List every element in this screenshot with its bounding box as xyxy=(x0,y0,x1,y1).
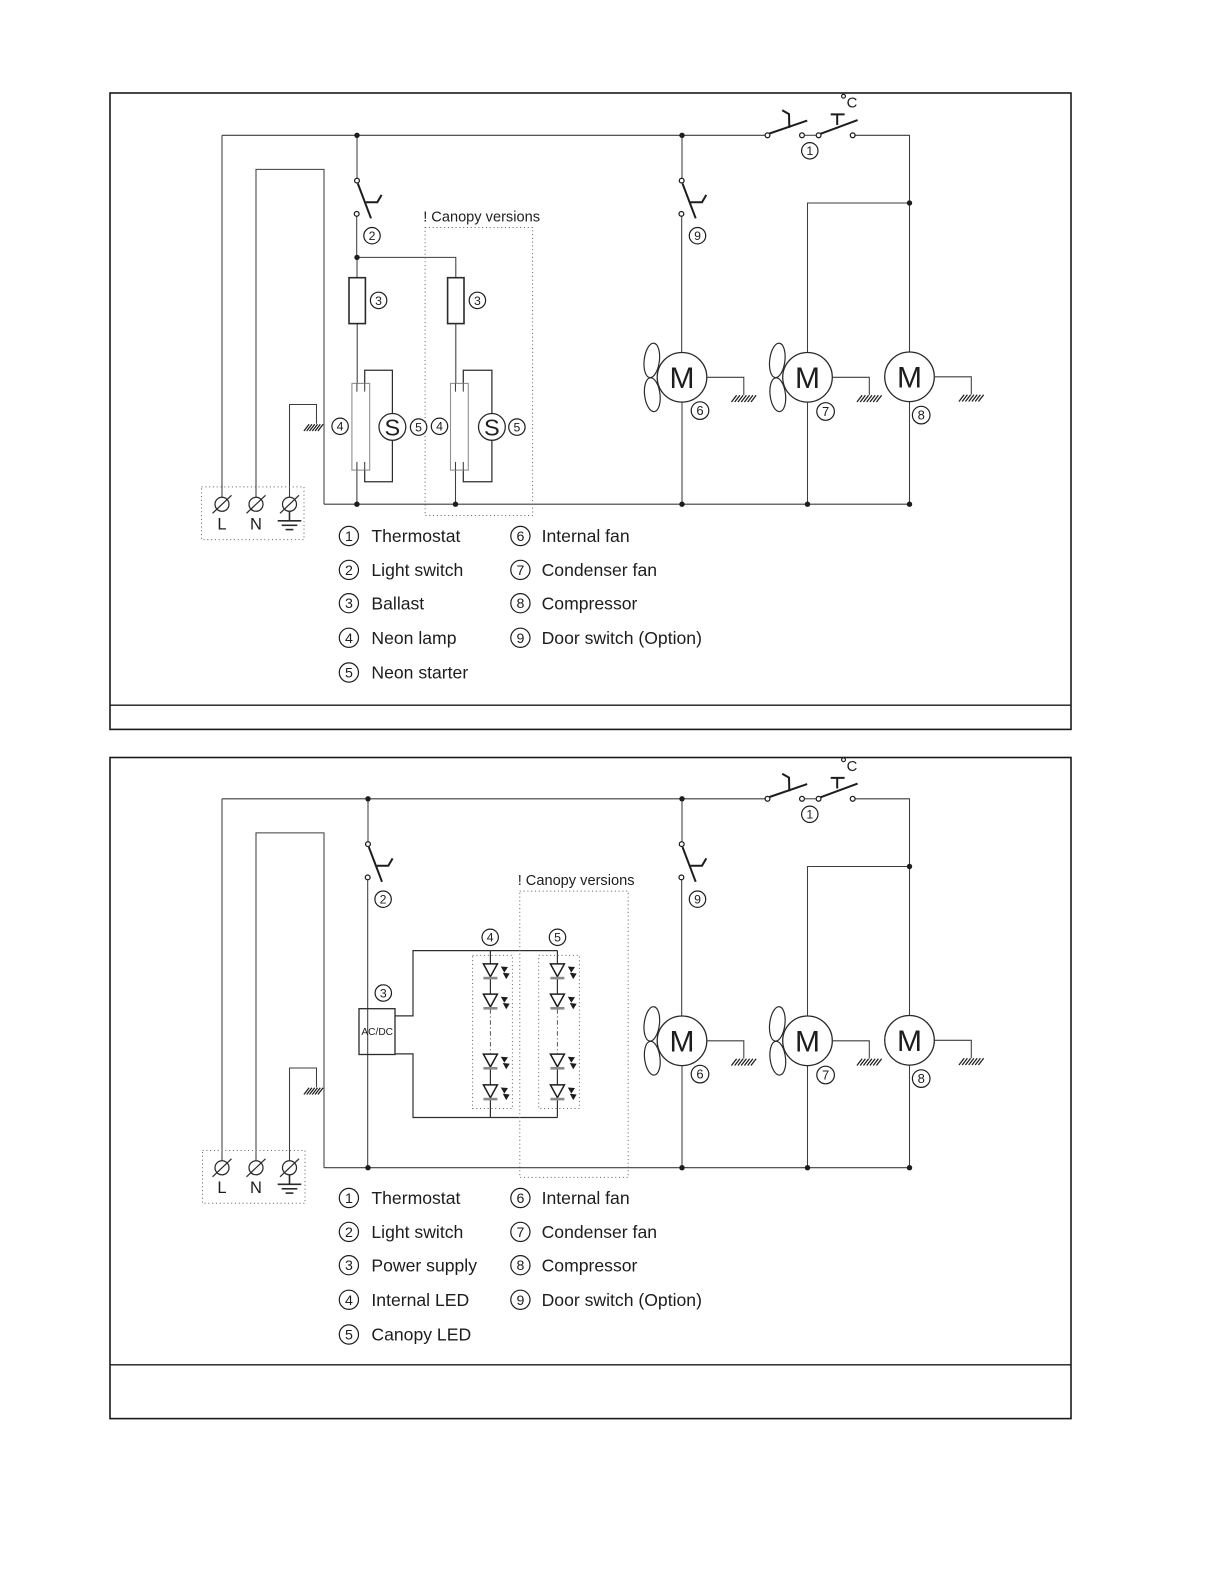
label 6 (internal fan) xyxy=(691,402,709,420)
thermostat 1 (panel 2) arm B xyxy=(821,784,858,798)
wire lamp 1 to neutral bus xyxy=(356,470,358,504)
label 8 (compressor, panel 2) xyxy=(912,1070,930,1088)
power supply AC/DC box xyxy=(359,1009,395,1055)
label 7 (condenser fan, panel 2) xyxy=(817,1066,835,1084)
terminal PE (panel 2) xyxy=(280,1157,299,1177)
wire LED string 5 return xyxy=(556,1100,558,1117)
label 5 (canopy LED) xyxy=(549,929,565,945)
legend item 2 number xyxy=(339,1222,358,1241)
label 6 (internal fan, panel 2) xyxy=(691,1065,709,1083)
wire top bus (right) to compressor drop xyxy=(855,135,909,203)
svg-text:3: 3 xyxy=(375,294,382,308)
ground M8 (panel 2) xyxy=(934,1040,971,1058)
PE earth symbol (panel 2) xyxy=(278,1175,302,1193)
panel 2 frame xyxy=(110,758,1071,1419)
panel 1 footer divider xyxy=(110,704,1071,706)
label 4 (canopy neon lamp) xyxy=(431,418,447,434)
wire lamp 1 feed xyxy=(356,257,358,277)
terminal box (L N PE) xyxy=(202,487,305,540)
terminal PE xyxy=(280,494,299,514)
junction lamp 2 / neutral bus xyxy=(453,502,458,507)
svg-text:1: 1 xyxy=(345,529,353,545)
ground M6 hatch xyxy=(731,395,756,402)
legend item 5 number xyxy=(339,1325,358,1344)
label 3 (power supply) xyxy=(375,985,391,1001)
internal LED diode 1 xyxy=(483,964,509,979)
internal fan M6 xyxy=(657,353,707,403)
wire compressor to neutral bus xyxy=(909,402,911,505)
svg-text:4: 4 xyxy=(345,1293,353,1309)
door switch 9 (panel 2) xyxy=(679,842,706,882)
neon starter S xyxy=(379,414,406,441)
svg-text:Internal fan: Internal fan xyxy=(542,526,630,546)
label 1 (panel 2) (thermostat) xyxy=(802,806,818,822)
svg-text:! Canopy versions: ! Canopy versions xyxy=(518,873,635,889)
svg-text:8: 8 xyxy=(918,408,925,423)
svg-text:5: 5 xyxy=(554,931,561,945)
label 3 (canopy ballast) xyxy=(469,292,485,308)
wire canopy lamp feed xyxy=(357,257,456,277)
door switch 9 xyxy=(679,178,706,218)
junction internal fan / neutral bus xyxy=(679,502,684,507)
light switch 2 (panel 2) xyxy=(365,842,392,882)
light switch 2 xyxy=(354,178,381,218)
thermostat 1 arm B xyxy=(821,120,858,134)
svg-text:9: 9 xyxy=(516,631,524,647)
svg-text:7: 7 xyxy=(822,404,829,419)
svg-text:S: S xyxy=(385,415,401,441)
label 9 (door switch) xyxy=(689,228,705,244)
svg-text:M: M xyxy=(795,1025,820,1058)
ground M7 (panel 2) xyxy=(832,1041,869,1059)
wire door switch drop (panel 2) xyxy=(681,799,683,842)
wire lamp 2 to neutral bus xyxy=(455,470,457,504)
label 1 (thermostat) xyxy=(802,143,818,159)
wire condenser fan to neutral bus xyxy=(807,402,809,504)
fan blades M6 (panel 2) xyxy=(642,1006,662,1076)
canopy versions box (panel 2) xyxy=(520,891,628,1177)
svg-text:2: 2 xyxy=(369,229,376,243)
wire DC plus rail xyxy=(395,951,557,1016)
svg-text:6: 6 xyxy=(516,1191,524,1207)
wire light switch to power supply to bus xyxy=(367,880,369,1168)
junction condenser fan / bus (panel 2) xyxy=(805,1165,810,1170)
wire light switch drop (panel 2) xyxy=(367,799,369,842)
svg-text:Internal LED: Internal LED xyxy=(371,1290,469,1310)
svg-text:Ballast: Ballast xyxy=(371,593,424,613)
label 7 (condenser fan) xyxy=(817,403,835,421)
label 9 (door switch, panel 2) xyxy=(689,891,705,907)
svg-text:Thermostat: Thermostat xyxy=(371,526,460,546)
wire compressor feed xyxy=(909,203,911,352)
canopy LED diode 3 xyxy=(550,1054,576,1069)
label 3 (ballast) xyxy=(370,292,386,308)
ballast 3 (canopy) xyxy=(448,278,464,324)
label 4 (internal LED) xyxy=(482,929,498,945)
neon lamp 4 (canopy) xyxy=(451,383,469,470)
junction light switch / top bus xyxy=(354,133,359,138)
wire internal fan to neutral bus xyxy=(681,402,683,504)
label 2 (light switch) xyxy=(364,228,380,244)
wire compressor feed (panel 2) xyxy=(909,867,911,1016)
wire LED string 4 continuation (dash-dot) xyxy=(489,1009,491,1054)
wire LED string 4 link B xyxy=(489,1069,491,1085)
wire top bus right (panel 2) xyxy=(855,799,909,867)
svg-text:1: 1 xyxy=(345,1191,353,1207)
legend item 7 number xyxy=(511,1222,530,1241)
canopy versions box xyxy=(425,228,532,516)
wire LED string 4 link A xyxy=(489,979,491,994)
terminal N xyxy=(247,494,266,534)
junction lamp feeds xyxy=(354,255,359,260)
svg-text:1: 1 xyxy=(806,808,813,822)
svg-text:7: 7 xyxy=(822,1068,829,1083)
svg-text:9: 9 xyxy=(516,1293,524,1309)
legend item 3 number xyxy=(339,594,358,613)
thermostat 1 actuator flag xyxy=(782,110,789,128)
thermostat 1 (panel 2) contacts xyxy=(765,796,855,801)
junction door switch / top bus xyxy=(679,133,684,138)
wire top bus left (panel 2) xyxy=(222,798,765,800)
wire PE to chassis xyxy=(290,405,317,498)
svg-text:Power supply: Power supply xyxy=(371,1255,477,1275)
panel 2 footer divider xyxy=(110,1364,1071,1366)
svg-text:M: M xyxy=(795,362,820,395)
junction compressor / neutral bus xyxy=(907,502,912,507)
thermostat 1 (panel 2) arm A xyxy=(770,784,808,797)
legend item 6 number xyxy=(511,526,530,545)
svg-text:3: 3 xyxy=(345,596,353,612)
canopy LED diode 1 xyxy=(550,964,576,979)
internal LED diode 3 xyxy=(483,1054,509,1069)
svg-text:! Canopy versions: ! Canopy versions xyxy=(423,210,540,226)
svg-text:C: C xyxy=(847,96,858,112)
svg-text:Condenser fan: Condenser fan xyxy=(542,560,657,580)
junction light switch / top bus (panel 2) xyxy=(365,796,370,801)
terminal L (panel 2) xyxy=(213,1157,232,1197)
wire starter 1 loop bottom xyxy=(365,440,393,482)
legend item 9 number xyxy=(511,628,530,647)
label 5 (neon starter) xyxy=(410,419,426,435)
svg-text:Neon starter: Neon starter xyxy=(371,663,468,683)
wire L riser xyxy=(221,135,223,497)
wire LED string 5 riser xyxy=(556,951,558,964)
svg-text:Door switch (Option): Door switch (Option) xyxy=(542,628,702,648)
condenser fan M7 (panel 2) xyxy=(783,1016,833,1066)
svg-text:Thermostat: Thermostat xyxy=(371,1188,460,1208)
wire L riser (panel 2) xyxy=(221,799,223,1161)
svg-text:M: M xyxy=(670,1025,695,1058)
ground M7 (panel 2) hatch xyxy=(857,1059,882,1066)
terminal N (panel 2) xyxy=(247,1157,266,1197)
svg-text:5: 5 xyxy=(345,666,353,682)
thermostat 1 arm A xyxy=(770,121,808,134)
wire door switch to internal fan xyxy=(681,216,683,352)
junction compressor / condenser branch (panel 2) xyxy=(907,864,912,869)
svg-text:Canopy LED: Canopy LED xyxy=(371,1325,471,1345)
thermostat 1 (panel 2) actuator flag xyxy=(782,774,789,792)
svg-text:6: 6 xyxy=(516,529,524,545)
terminal box L N PE (panel 2) xyxy=(203,1151,306,1204)
junction lamp 1 / neutral bus xyxy=(354,502,359,507)
svg-text:C: C xyxy=(847,759,858,775)
svg-text:4: 4 xyxy=(337,420,344,434)
wire internal fan to bus (panel 2) xyxy=(681,1066,683,1168)
ground M6 xyxy=(707,377,744,395)
wire PE to chassis (panel 2) xyxy=(290,1068,317,1161)
svg-text:Compressor: Compressor xyxy=(542,593,638,613)
junction condenser fan / neutral bus xyxy=(805,502,810,507)
wire N riser and return xyxy=(256,169,324,504)
chassis ground PE (panel 2) xyxy=(304,1088,323,1095)
ground M7 hatch xyxy=(857,395,882,402)
label 2 (light switch, panel 2) xyxy=(375,891,391,907)
chassis ground (PE) xyxy=(304,424,323,431)
legend item 4 number xyxy=(339,628,358,647)
svg-text:S: S xyxy=(484,415,500,441)
legend item 1 number xyxy=(339,526,358,545)
svg-text:M: M xyxy=(897,361,922,394)
ground M8 xyxy=(934,377,971,395)
svg-text:2: 2 xyxy=(345,563,353,579)
svg-text:Door switch (Option): Door switch (Option) xyxy=(542,1290,702,1310)
junction compressor / condenser branch xyxy=(907,200,912,205)
wire bottom neutral bus xyxy=(324,503,910,505)
svg-text:5: 5 xyxy=(345,1328,353,1344)
wire ballast 1 to lamp 1 xyxy=(356,324,358,384)
label 4 (neon lamp) xyxy=(332,418,348,434)
legend item 7 number xyxy=(511,560,530,579)
wire door switch to internal fan (panel 2) xyxy=(681,880,683,1016)
legend item 8 number xyxy=(511,594,530,613)
internal LED string box xyxy=(473,955,513,1108)
svg-text:9: 9 xyxy=(694,229,701,243)
ground M8 (panel 2) hatch xyxy=(959,1058,984,1065)
wire DC minus rail xyxy=(395,1054,557,1118)
junction internal fan / bus (panel 2) xyxy=(679,1165,684,1170)
wire door switch drop xyxy=(681,135,683,178)
wire LED string 5 continuation (dash-dot) xyxy=(556,1009,558,1054)
wire starter 2 loop bottom xyxy=(463,440,492,482)
wire ballast 2 to lamp 2 xyxy=(455,324,457,384)
canopy LED diode 2 xyxy=(550,994,576,1009)
svg-text:9: 9 xyxy=(694,893,701,907)
svg-text:M: M xyxy=(670,362,695,395)
svg-text:2: 2 xyxy=(345,1225,353,1241)
thermostat 1 sensor bulb xyxy=(831,114,845,125)
svg-text:2: 2 xyxy=(380,893,387,907)
compressor M8 (panel 2) xyxy=(885,1016,935,1066)
wire LED string 5 link A xyxy=(556,979,558,994)
svg-text:L: L xyxy=(217,515,226,533)
legend item 9 number xyxy=(511,1290,530,1309)
svg-text:AC/DC: AC/DC xyxy=(361,1027,393,1038)
neon lamp 4 xyxy=(352,383,370,470)
svg-text:N: N xyxy=(250,1179,262,1197)
panel 1 frame xyxy=(110,93,1071,729)
wire LED string 5 link B xyxy=(556,1069,558,1085)
label 5 (canopy neon starter) xyxy=(509,419,525,435)
wire bottom neutral bus (panel 2) xyxy=(324,1167,910,1169)
svg-text:N: N xyxy=(250,515,262,533)
wire light switch drop xyxy=(356,135,358,178)
canopy LED string box xyxy=(539,955,580,1108)
wire LED string 4 return xyxy=(489,1100,491,1117)
condenser fan M7 xyxy=(783,353,833,403)
junction compressor / bus (panel 2) xyxy=(907,1165,912,1170)
compressor M8 xyxy=(885,352,935,402)
legend item 5 number xyxy=(339,663,358,682)
svg-text:3: 3 xyxy=(474,294,481,308)
svg-text:5: 5 xyxy=(513,420,520,434)
degree C label xyxy=(842,94,858,111)
PE earth symbol xyxy=(278,511,302,529)
svg-text:1: 1 xyxy=(806,144,813,158)
svg-text:6: 6 xyxy=(696,1067,703,1082)
fan blades M7 xyxy=(768,342,788,412)
svg-text:8: 8 xyxy=(516,596,524,612)
legend item 4 number xyxy=(339,1290,358,1309)
legend item 8 number xyxy=(511,1256,530,1275)
internal LED diode 4 xyxy=(483,1085,509,1100)
svg-text:3: 3 xyxy=(380,986,387,1000)
svg-text:7: 7 xyxy=(516,563,524,579)
thermostat 1 (panel 2) sensor bulb xyxy=(831,778,845,789)
wire starter 2 loop top xyxy=(463,370,492,413)
legend item 1 number xyxy=(339,1188,358,1207)
svg-text:6: 6 xyxy=(696,403,703,418)
svg-text:Neon lamp: Neon lamp xyxy=(371,628,456,648)
svg-text:8: 8 xyxy=(918,1071,925,1086)
svg-text:4: 4 xyxy=(487,931,494,945)
wire starter 1 loop top xyxy=(365,370,393,413)
svg-text:L: L xyxy=(217,1179,226,1197)
svg-text:8: 8 xyxy=(516,1258,524,1274)
svg-text:Compressor: Compressor xyxy=(542,1255,638,1275)
svg-text:Light switch: Light switch xyxy=(371,560,463,580)
ground M8 hatch xyxy=(959,395,984,402)
internal fan M6 (panel 2) xyxy=(657,1016,707,1066)
wire between thermostat contacts (panel 2) xyxy=(804,798,816,800)
wire condenser fan to bus (panel 2) xyxy=(807,1066,809,1168)
ground M6 (panel 2) xyxy=(707,1041,744,1059)
wire top bus (left) xyxy=(222,134,765,136)
degree C label (panel 2) xyxy=(842,758,858,775)
svg-text:Light switch: Light switch xyxy=(371,1222,463,1242)
wire light switch out xyxy=(356,216,358,257)
canopy LED diode 4 xyxy=(550,1085,576,1100)
junction door switch / top bus (panel 2) xyxy=(679,796,684,801)
wire LED string 4 riser xyxy=(489,951,491,964)
internal LED diode 2 xyxy=(483,994,509,1009)
label 8 (compressor) xyxy=(912,406,930,424)
svg-text:3: 3 xyxy=(345,1258,353,1274)
svg-text:5: 5 xyxy=(415,420,422,434)
thermostat 1 contacts xyxy=(765,133,855,138)
wire between thermostat contacts xyxy=(804,134,816,136)
svg-text:4: 4 xyxy=(345,631,353,647)
svg-text:Condenser fan: Condenser fan xyxy=(542,1222,657,1242)
ballast 3 xyxy=(349,278,365,324)
ground M7 xyxy=(832,377,869,395)
wire N riser and return (panel 2) xyxy=(256,833,324,1168)
ground M6 (panel 2) hatch xyxy=(731,1059,756,1066)
fan blades M7 (panel 2) xyxy=(768,1006,788,1076)
svg-text:Internal fan: Internal fan xyxy=(542,1188,630,1208)
wire condenser fan feed (panel 2) xyxy=(808,867,910,1017)
fan blades M6 xyxy=(642,342,662,412)
legend item 2 number xyxy=(339,560,358,579)
terminal L xyxy=(213,494,232,534)
legend item 6 number xyxy=(511,1188,530,1207)
wire condenser fan feed xyxy=(808,203,910,353)
svg-text:M: M xyxy=(897,1025,922,1058)
wire compressor to bus (panel 2) xyxy=(909,1065,911,1168)
svg-text:7: 7 xyxy=(516,1225,524,1241)
neon starter S (canopy) xyxy=(479,414,506,441)
svg-text:4: 4 xyxy=(436,420,443,434)
junction power supply / bus (panel 2) xyxy=(365,1165,370,1170)
legend item 3 number xyxy=(339,1256,358,1275)
